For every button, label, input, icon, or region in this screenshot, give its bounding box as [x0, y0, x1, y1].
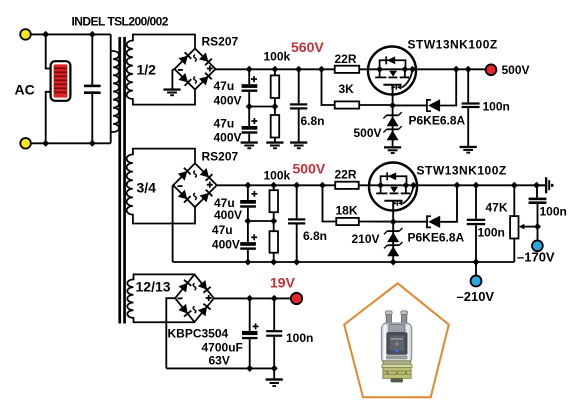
svg-text:3/4: 3/4	[137, 180, 157, 196]
svg-text:47u: 47u	[212, 223, 233, 237]
MOSFET Q1 STW13NK100Z	[368, 47, 416, 106]
svg-text:1/2: 1/2	[137, 62, 157, 78]
svg-text:100n: 100n	[286, 331, 313, 345]
node AC top / varistor	[42, 31, 49, 38]
node row1 right	[271, 103, 278, 110]
TVS D3 P6KE6.8A (top)	[393, 69, 457, 111]
node rail2/C9	[533, 182, 540, 189]
wire -210V tap	[475, 262, 477, 276]
node rail3/C11	[246, 295, 253, 302]
MOSFET Q2 STW13NK100Z	[369, 163, 417, 222]
resistor R4 3K with branch	[322, 69, 391, 108]
svg-text:210V: 210V	[352, 232, 380, 246]
svg-text:100n: 100n	[478, 226, 505, 240]
capacitor C4 100n (top)	[462, 69, 480, 146]
svg-text:22R: 22R	[335, 52, 357, 66]
resistor R1 100k	[271, 69, 280, 106]
ground rail2 right (rotated)	[537, 177, 554, 193]
svg-text:AC: AC	[15, 82, 35, 98]
transformer secondary 12/13 winding	[127, 274, 194, 322]
wire B3 minus down to bottom rail	[166, 298, 175, 368]
svg-text:47K: 47K	[486, 201, 508, 215]
capacitor C3 6.8n	[290, 69, 307, 141]
pentagon frame (orange)	[344, 283, 449, 397]
node rail1/C3	[295, 66, 302, 73]
transformer primary winding	[111, 51, 119, 132]
node bottom rail3/C12	[271, 365, 278, 372]
capacitor C6 47u/400V	[240, 221, 257, 262]
svg-text:18K: 18K	[336, 203, 358, 217]
wire input cap top lead	[91, 34, 93, 84]
capacitor C7 6.8n	[288, 185, 305, 262]
zener stack 500V (D1,D2)	[383, 105, 401, 146]
ground at C3	[290, 141, 307, 149]
TVS D6 P6KE6.8A (middle)	[393, 185, 457, 228]
ground at rail3	[266, 368, 283, 387]
node rail2/C5	[244, 182, 251, 189]
vacuum tube photo	[381, 311, 412, 383]
capacitor C5 47u/400V	[240, 185, 257, 221]
svg-text:400V: 400V	[214, 131, 242, 145]
ground at B1	[163, 88, 180, 96]
resistor R8 18K with branch	[323, 185, 391, 225]
node AC bottom / varistor	[42, 140, 49, 147]
node rail1/R1	[271, 66, 278, 73]
svg-text:INDEL TSL200/002: INDEL TSL200/002	[72, 15, 169, 29]
capacitor C12 100n (bottom)	[266, 298, 282, 368]
resistor R7 22R	[335, 182, 359, 189]
svg-text:12/13: 12/13	[136, 279, 171, 295]
svg-text:100n: 100n	[540, 204, 567, 218]
svg-text:–170V: –170V	[517, 250, 555, 265]
svg-text:–210V: –210V	[457, 289, 495, 304]
capacitor C2 47u/400V	[242, 107, 258, 142]
svg-text:KBPC3504: KBPC3504	[168, 327, 229, 341]
node row1 left	[246, 103, 253, 110]
svg-text:100k: 100k	[264, 169, 291, 183]
ground at zener stack	[384, 146, 401, 154]
ground at C2	[241, 141, 258, 149]
node bottom rail/-210V tap	[473, 259, 480, 266]
svg-text:400V: 400V	[212, 237, 240, 251]
transformer secondary 1/2 winding	[127, 35, 195, 105]
terminal AC N (yellow)	[20, 138, 31, 149]
node rail1/C1	[246, 66, 253, 73]
svg-text:6.8n: 6.8n	[301, 114, 325, 128]
node gate Q2	[390, 218, 397, 225]
node bottom rail3/C11	[246, 365, 253, 372]
svg-text:19V: 19V	[270, 275, 296, 291]
svg-text:400V: 400V	[214, 93, 242, 107]
node rail1/C4	[465, 66, 472, 73]
svg-text:22R: 22R	[335, 168, 357, 182]
wire bottom rail3	[166, 367, 274, 369]
capacitor C1 47u/400V	[242, 69, 258, 106]
resistor R2 100k	[271, 107, 280, 142]
capacitor input filter	[84, 85, 101, 94]
node AC bottom / filter cap	[89, 140, 96, 147]
svg-text:47u: 47u	[214, 116, 235, 130]
wire input cap bottom lead	[91, 91, 93, 143]
svg-text:500V: 500V	[502, 63, 530, 77]
wire rail2 (ground rail, middle)	[217, 184, 545, 186]
node bottom rail/C7	[293, 259, 300, 266]
bridge rectifier B2 RS207 (middle)	[173, 163, 217, 207]
svg-text:560V: 560V	[291, 39, 324, 55]
potentiometer 47K	[510, 185, 537, 262]
wire -170V tap	[537, 227, 539, 241]
node row2 right	[270, 218, 277, 225]
bridge rectifier B1 RS207 (top)	[175, 49, 216, 90]
ground at C4	[460, 146, 477, 154]
resistor R3 22R	[335, 66, 360, 73]
node gate Q1	[389, 102, 396, 109]
node rail2/R8 branch	[319, 182, 326, 189]
terminal -210V (blue)	[471, 276, 482, 287]
node bottom rail/zeners	[390, 259, 397, 266]
resistor R5 100k	[270, 185, 279, 221]
svg-text:500V: 500V	[293, 161, 326, 177]
terminal 500V (red)	[486, 64, 497, 75]
wire node row1	[249, 106, 275, 108]
wire rail3 +19V	[214, 297, 291, 299]
wire AC bottom	[31, 142, 111, 144]
node rail2/pot	[511, 182, 518, 189]
svg-text:63V: 63V	[209, 354, 230, 368]
node rail2/C8	[473, 182, 480, 189]
node rail1/R4 branch	[318, 66, 325, 73]
transformer core	[118, 37, 125, 324]
node row2 left	[244, 218, 251, 225]
resistor R6 100k	[270, 221, 279, 262]
capacitor C9 100n (right)	[529, 185, 547, 226]
varistor (red striped component)	[51, 61, 71, 101]
svg-text:RS207: RS207	[202, 150, 239, 164]
capacitor C11 4700uF/63V	[242, 298, 259, 368]
node rail2/TVS	[454, 182, 461, 189]
wire B1 minus to ground	[172, 69, 174, 89]
svg-text:RS207: RS207	[202, 35, 239, 49]
node wiper/-170V	[534, 223, 541, 230]
node rail2/C7	[293, 182, 300, 189]
node bottom rail/C6	[244, 259, 251, 266]
node AC top / filter cap	[89, 31, 96, 38]
ground at R2	[266, 141, 283, 149]
terminal 19V (red)	[291, 293, 302, 304]
terminal -170V (blue)	[532, 240, 543, 251]
wire AC top	[31, 33, 111, 35]
zener stack 210V (D4,D5)	[384, 222, 402, 262]
wire node row2	[248, 220, 274, 222]
svg-text:3K: 3K	[339, 82, 355, 96]
svg-text:P6KE6.8A: P6KE6.8A	[409, 114, 466, 128]
wire rail2 bottom (-210V rail)	[173, 261, 515, 263]
transformer primary lead	[110, 34, 112, 143]
svg-text:47u: 47u	[214, 79, 235, 93]
svg-text:100k: 100k	[264, 50, 291, 64]
svg-text:400V: 400V	[214, 208, 242, 222]
bridge rectifier B3 KBPC3504 (bottom)	[175, 274, 214, 322]
svg-text:STW13NK100Z: STW13NK100Z	[408, 38, 498, 52]
svg-text:P6KE6.8A: P6KE6.8A	[408, 231, 465, 245]
transformer secondary 3/4 winding	[127, 149, 195, 224]
node rail1/TVS	[453, 66, 460, 73]
wire varistor branch top	[46, 34, 51, 68]
node rail3/C12	[271, 295, 278, 302]
wire B2 minus to negative rail	[172, 185, 175, 262]
svg-text:500V: 500V	[354, 126, 382, 140]
node bottom rail/R6	[270, 259, 277, 266]
svg-text:STW13NK100Z: STW13NK100Z	[417, 163, 507, 177]
svg-text:6.8n: 6.8n	[303, 229, 327, 243]
wire varistor branch bottom	[46, 92, 51, 144]
node rail2/R5	[270, 182, 277, 189]
svg-text:4700uF: 4700uF	[202, 341, 243, 355]
svg-text:100n: 100n	[483, 100, 510, 114]
capacitor C8 100n (middle)	[467, 185, 485, 262]
wire rail1 +560V	[216, 68, 486, 70]
terminal AC L (yellow)	[20, 29, 31, 40]
